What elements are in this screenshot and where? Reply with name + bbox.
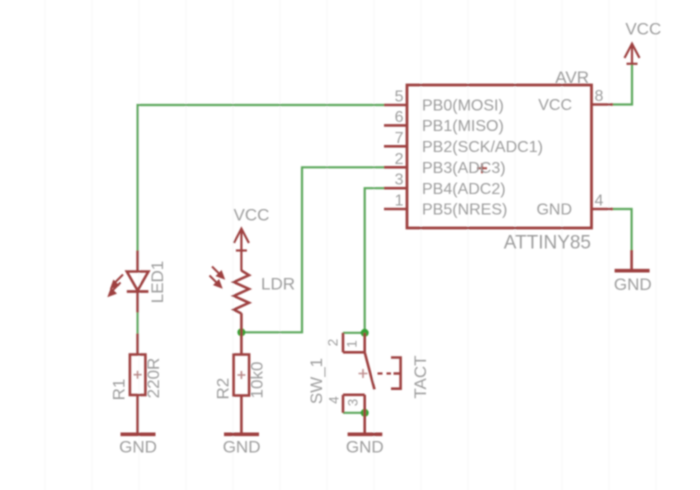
- resistor R1 bottom pin: [136, 395, 139, 434]
- svg-text:7: 7: [395, 130, 404, 147]
- wire net PB4: IC pin3 to switch: [365, 188, 384, 333]
- switch SW_1 pin2 stub: [342, 333, 345, 353]
- junction LDR/R2 node: [237, 328, 245, 336]
- svg-text:ATTINY85: ATTINY85: [504, 233, 591, 254]
- svg-text:PB5(NRES): PB5(NRES): [422, 202, 507, 219]
- switch SW_1 bottom bridge: [343, 393, 365, 396]
- switch SW_1 lever: [365, 352, 375, 389]
- wire net PB3: LDR junction to IC pin2: [241, 167, 384, 332]
- svg-text:SW_1: SW_1: [307, 358, 326, 404]
- IC origin cross: [477, 163, 487, 173]
- svg-text:GND: GND: [119, 438, 157, 457]
- svg-text:AVR: AVR: [555, 68, 589, 87]
- LDR light arrow b: [210, 276, 222, 288]
- LDR bottom pin: [240, 313, 243, 332]
- svg-text:1: 1: [395, 193, 404, 210]
- pin 1 stub: [384, 208, 407, 211]
- svg-text:10k0: 10k0: [248, 362, 267, 399]
- ground GND1 bar: [121, 432, 156, 436]
- junction switch pin3 node: [361, 409, 369, 417]
- pin 2 stub: [384, 166, 407, 169]
- svg-text:VCC: VCC: [234, 206, 270, 225]
- resistor R2 top pin: [240, 332, 243, 354]
- LDR light arrow a: [212, 267, 224, 279]
- junction switch pin1 node: [361, 329, 369, 337]
- svg-text:R2: R2: [214, 378, 233, 400]
- LED1 anode pin: [136, 251, 139, 272]
- op-amp U1 box ATTINY85: [407, 85, 592, 228]
- ground GND4 bar: [615, 269, 650, 273]
- pin 4 stub: [592, 208, 614, 211]
- pin 3 stub: [384, 187, 407, 190]
- svg-text:4: 4: [595, 193, 604, 210]
- svg-text:1: 1: [345, 340, 360, 348]
- svg-text:R1: R1: [110, 379, 129, 401]
- resistor R2 origin cross: [237, 371, 245, 379]
- svg-text:PB3(ADC3): PB3(ADC3): [422, 160, 506, 177]
- pin 6 stub: [384, 124, 407, 127]
- wire net VCC right: pin8 to VCC arrow: [613, 65, 632, 105]
- pin 8 stub: [592, 103, 614, 106]
- svg-text:3: 3: [346, 399, 361, 407]
- LED1 cathode bar: [127, 290, 149, 293]
- svg-text:VCC: VCC: [538, 97, 572, 114]
- svg-text:3: 3: [395, 172, 404, 189]
- svg-text:4: 4: [327, 396, 342, 404]
- svg-text:LED1: LED1: [148, 261, 167, 304]
- switch SW_1 top bridge: [343, 351, 365, 354]
- supply VCC arrow (LDR): [234, 229, 249, 271]
- resistor R1 body: [130, 355, 146, 396]
- svg-text:PB2(SCK/ADC1): PB2(SCK/ADC1): [422, 139, 543, 156]
- ground GND2 bar: [224, 432, 259, 436]
- svg-text:VCC: VCC: [625, 20, 661, 39]
- wire net PB0: IC pin5 to LED top: [138, 105, 384, 251]
- svg-text:GND: GND: [536, 202, 572, 219]
- svg-text:GND: GND: [223, 438, 261, 457]
- svg-text:8: 8: [595, 88, 604, 105]
- LED1 cathode pin: [136, 292, 139, 313]
- supply VCC arrow (right): [625, 44, 640, 65]
- svg-text:TACT: TACT: [411, 355, 430, 398]
- resistor R2 body: [234, 355, 250, 396]
- switch SW_1 pin3 stub: [363, 395, 366, 413]
- svg-text:5: 5: [395, 89, 404, 106]
- switch SW_1 button: [391, 358, 401, 389]
- pin 5 stub: [384, 104, 407, 107]
- svg-text:6: 6: [395, 109, 404, 126]
- resistor R1 origin cross: [134, 371, 142, 379]
- svg-text:LDR: LDR: [261, 275, 295, 294]
- resistor R1 top pin: [136, 334, 139, 355]
- ground GND4 pin: [630, 250, 633, 271]
- wire switch bottom jumper: [343, 412, 365, 414]
- svg-text:220R: 220R: [144, 358, 163, 399]
- svg-text:GND: GND: [346, 438, 384, 457]
- LED1 emission arrow b: [109, 283, 121, 296]
- svg-text:PB1(MISO): PB1(MISO): [422, 118, 504, 135]
- wire LED cathode to R1: [137, 313, 139, 334]
- pin 7 stub: [384, 145, 407, 148]
- svg-text:PB0(MOSI): PB0(MOSI): [422, 98, 504, 115]
- svg-text:2: 2: [395, 151, 404, 168]
- svg-text:PB4(ADC2): PB4(ADC2): [422, 181, 506, 198]
- resistor R2 bottom pin: [240, 396, 243, 435]
- switch GND pin: [363, 413, 366, 435]
- switch SW_1 actuator dashes: [378, 372, 392, 374]
- wire switch top jumper: [343, 332, 365, 334]
- ground GND3 bar: [348, 432, 383, 436]
- LDR zigzag resistor: [234, 271, 249, 314]
- svg-text:2: 2: [326, 339, 341, 347]
- svg-text:GND: GND: [614, 275, 652, 294]
- LED1 triangle: [127, 272, 149, 291]
- switch SW_1 pin4 stub: [342, 395, 345, 413]
- wire net GND right: pin4: [613, 209, 632, 250]
- LED1 emission arrow a: [112, 275, 124, 288]
- switch SW_1 origin cross: [359, 369, 368, 378]
- switch SW_1 pin1 stub: [363, 333, 366, 353]
